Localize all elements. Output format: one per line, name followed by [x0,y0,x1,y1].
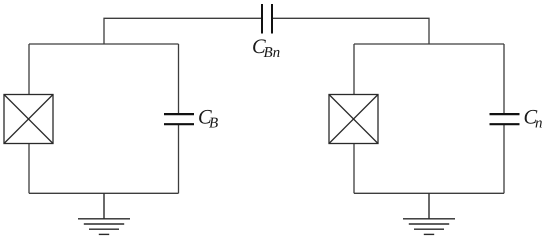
wire right loop bottom [354,192,504,194]
wire top coupling right segment [272,18,429,44]
capacitor CB [164,114,194,124]
wire right loop top [354,43,504,45]
wire left loop top [29,43,179,45]
josephson junction X1 [4,95,53,144]
label CB [199,110,218,128]
capacitor CBn [262,4,272,34]
wire right loop left upper [353,44,355,95]
label Cn [525,110,542,128]
wire right loop right lower [503,125,505,193]
wire left loop left lower [28,144,30,194]
josephson junction X2 [329,95,378,144]
wire left loop left upper [28,44,30,95]
wire right loop right upper [503,44,505,113]
wire left loop right upper [178,44,180,113]
wire left loop bottom [29,192,179,194]
label CBn [253,39,279,57]
capacitor Cn [490,114,520,124]
wire right loop left lower [353,144,355,194]
ground right [403,193,455,234]
ground left [78,193,130,234]
wire left loop right lower [178,125,180,193]
wire top coupling left segment [104,18,262,44]
